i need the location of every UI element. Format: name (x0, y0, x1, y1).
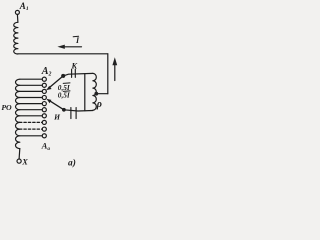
node upper wiper junction (61, 74, 65, 78)
current arrow I (64, 46, 82, 48)
wire right vertical (107, 54, 109, 94)
svg-text:Aa: Aa (41, 141, 51, 152)
tap circle 6 (42, 108, 46, 112)
wire top horizontal (18, 53, 108, 55)
tap circle 9 (42, 127, 46, 131)
svg-text:0,5I: 0,5I (58, 91, 71, 100)
tap line 7 (20, 115, 42, 117)
svg-text:A1: A1 (19, 1, 29, 12)
tap circle A2 (42, 77, 46, 81)
svg-text:K: K (71, 62, 78, 71)
reactor left side line (84, 74, 86, 111)
tap circle 10 (42, 134, 46, 138)
svg-text:РО: РО (1, 103, 12, 112)
contact lower ticks (70, 108, 72, 119)
dashed tap line 8 (20, 121, 43, 123)
tap line 6 (20, 109, 42, 111)
inductor main winding (left coil) (14, 22, 18, 54)
terminal A1 circle (15, 10, 19, 14)
node reactor center tap (94, 92, 98, 96)
upper wiper wire (49, 76, 64, 88)
svg-text:I: I (75, 36, 80, 45)
tap line 3 (20, 90, 42, 92)
svg-text:X: X (21, 157, 28, 166)
tap line 1 (A2) (20, 78, 42, 80)
dashed tap line 9 (20, 128, 43, 130)
svg-text:ρ: ρ (96, 99, 102, 110)
svg-text:A2: A2 (41, 66, 52, 78)
tap line 10 (An) (20, 135, 42, 137)
node lower wiper junction (62, 108, 66, 112)
terminal X circle (17, 159, 21, 163)
tap circle 2 (42, 83, 46, 87)
tap circle 7 (42, 114, 46, 118)
wire from A1 to coil (16, 15, 19, 23)
wire top branch to reactor (63, 73, 93, 76)
tap circle 3 (42, 89, 46, 93)
tap line 2 (20, 84, 42, 86)
wire winding bottom to X (18, 149, 21, 159)
tap circle 8 (42, 120, 46, 124)
lower wiper wire (49, 101, 64, 110)
reactor winding humps (93, 73, 96, 110)
tap circle 4 (42, 95, 46, 99)
upper wiper arrowhead (46, 86, 51, 90)
wire bottom branch to reactor (64, 110, 93, 111)
tap circle 5 (42, 102, 46, 106)
svg-text:И: И (53, 112, 61, 121)
voltage arrow up (right side) (114, 64, 116, 81)
wire center-tap horizontal (96, 93, 108, 95)
tap line 5 (20, 103, 42, 105)
tap line 4 (20, 97, 42, 99)
svg-text:а): а) (68, 157, 76, 168)
lower wiper arrowhead (46, 99, 51, 103)
contact K ticks (71, 69, 73, 77)
regulating winding left arcs (15, 79, 19, 148)
